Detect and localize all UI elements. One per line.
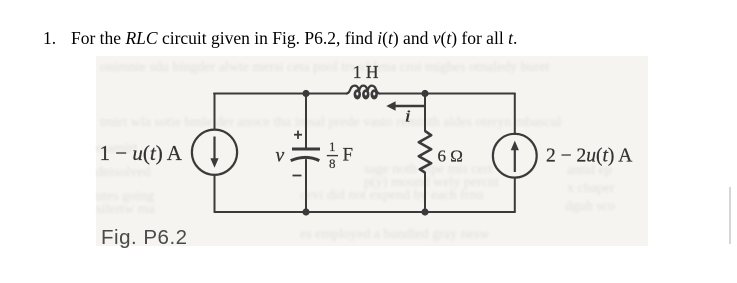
svg-text:1: 1 <box>329 139 336 154</box>
node bottom capacitor junction <box>302 208 309 215</box>
capacitor C 1/8 F <box>291 149 320 161</box>
svg-text:8: 8 <box>329 156 336 171</box>
figure caption Fig. P6.2 <box>101 226 188 250</box>
wire resistor branch upper <box>424 94 426 132</box>
svg-text:1 − u(t) A: 1 − u(t) A <box>100 141 183 165</box>
inductor loop turns <box>354 89 378 99</box>
label 1/8 F value <box>327 139 353 171</box>
wire left side upper <box>214 94 216 130</box>
svg-text:6 Ω: 6 Ω <box>438 146 463 165</box>
wire right side upper <box>514 94 516 135</box>
current arrow i <box>386 101 425 111</box>
label - polarity <box>293 175 302 177</box>
current source I1 (left, arrow down) <box>192 130 237 175</box>
svg-text:F: F <box>343 144 354 165</box>
faint bleed-through texture rows <box>100 60 646 76</box>
node bottom resistor junction <box>421 208 428 215</box>
problem statement <box>43 30 56 48</box>
node junction dots <box>302 90 428 216</box>
svg-text:1 H: 1 H <box>353 62 379 82</box>
label + polarity <box>294 131 302 139</box>
current source I2 (right, arrow up) <box>493 134 537 178</box>
wire left side lower <box>214 175 216 212</box>
wire top-right segment <box>381 93 515 95</box>
svg-text:v: v <box>276 146 285 167</box>
node top resistor junction <box>421 90 428 97</box>
node top capacitor junction <box>302 90 309 97</box>
scanned figure region background <box>96 56 648 246</box>
wire top-left segment <box>214 93 346 95</box>
wire capacitor branch lower <box>305 160 307 212</box>
inductor L 1H coil <box>346 86 380 94</box>
svg-text:i: i <box>405 107 411 126</box>
wire capacitor branch upper <box>305 94 307 148</box>
wire resistor branch lower <box>424 173 426 213</box>
faint right-edge scan line <box>729 187 731 244</box>
svg-text:2 − 2u(t) A: 2 − 2u(t) A <box>546 145 632 166</box>
wire right side lower <box>514 177 516 212</box>
wire bottom <box>215 211 515 213</box>
resistor R 6ohm <box>419 131 431 173</box>
